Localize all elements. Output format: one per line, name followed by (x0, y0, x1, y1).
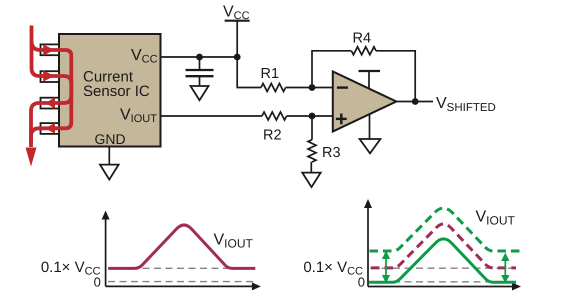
label R4 (353, 31, 372, 47)
wire node B down to R3 (311, 116, 313, 140)
capacitor C1 plates (186, 70, 214, 76)
VCC supply bar (225, 20, 250, 22)
wire VCC node down and to R1 (237, 57, 261, 88)
label 0.1xVCC left graph (41, 259, 101, 278)
label R3 (322, 145, 341, 161)
svg-text:VSHIFTED: VSHIFTED (436, 95, 496, 114)
resistor R2 (262, 112, 287, 120)
op-amp minus sign (337, 86, 348, 88)
wire op-amp output (396, 101, 433, 103)
svg-text:VCC: VCC (223, 3, 250, 22)
node B non-inverting input junction (309, 113, 316, 120)
ground symbol under capacitor (191, 86, 209, 100)
capacitor C1 top lead (199, 57, 201, 69)
wire VCC bar down to node (236, 21, 238, 57)
node A inverting input junction (309, 84, 316, 91)
resistor R4 (351, 47, 376, 55)
node at VCC junction (234, 54, 241, 61)
label VIOUT pin (120, 106, 157, 125)
current arrowhead out of pin4 (45, 123, 55, 134)
ground symbol under IC (100, 165, 119, 180)
wire VIOUT pin to R2 (161, 115, 263, 117)
left graph x-axis (106, 282, 261, 290)
right shift arrow double-headed (502, 254, 509, 282)
label 0 left graph (94, 274, 101, 289)
wire R3 to ground (310, 162, 312, 173)
feedback wire R4 left and down to node A (312, 51, 351, 88)
pin stub IP4 (41, 123, 60, 134)
resistor R1 (261, 84, 286, 92)
wire VCC pin to supply node (161, 56, 238, 58)
node at output (412, 98, 419, 105)
svg-text:R4: R4 (353, 31, 372, 47)
right graph green solid waveform at zero (369, 239, 516, 282)
svg-text:0: 0 (358, 274, 365, 289)
ground symbol under op-amp (360, 139, 381, 153)
pin stub IP2 (41, 71, 60, 82)
svg-text:0.1× VCC: 0.1× VCC (41, 259, 101, 278)
label 0.1xVCC right graph (303, 259, 363, 278)
right graph x-axis (368, 283, 521, 291)
current entry wire down into pin2 (31, 26, 71, 148)
label VCC pin (131, 47, 158, 66)
svg-text:R1: R1 (261, 66, 280, 82)
current sensor IC U1 body (59, 34, 161, 147)
svg-text:GND: GND (95, 131, 126, 147)
svg-text:VIOUT: VIOUT (214, 232, 254, 251)
capacitor C1 bottom lead (199, 76, 201, 86)
svg-text:R3: R3 (322, 145, 341, 161)
label 0 right graph (358, 274, 365, 289)
svg-text:R2: R2 (263, 128, 282, 144)
op-amp U1 (333, 72, 397, 132)
left graph dashed level zero (108, 281, 254, 283)
right graph crimson dashed waveform shifted (371, 224, 516, 268)
svg-text:VIOUT: VIOUT (476, 209, 516, 228)
label VSHIFTED (436, 95, 496, 114)
node at capacitor tap (196, 54, 203, 61)
current arrowhead into pin2 (43, 70, 54, 81)
feedback wire output up and left to R4 (376, 51, 415, 102)
label VIOUT left graph (214, 232, 254, 251)
label R1 (261, 66, 280, 82)
left graph y-axis (102, 211, 110, 287)
GND pin wire (108, 147, 110, 166)
resistor R3 (308, 140, 316, 162)
label Current Sensor IC (83, 69, 150, 100)
wire R2 to op-amp non-inverting input (287, 115, 333, 117)
right graph green dashed waveform shifted more (370, 208, 525, 251)
ground symbol under R3 (302, 173, 320, 188)
current arrowhead out of pin3 (45, 97, 55, 108)
right graph y-axis (364, 199, 372, 287)
current branch into pin1 and internal loop to pin4 (31, 41, 71, 144)
label R2 (263, 128, 282, 144)
label GND pin (95, 131, 126, 147)
pin stub IP1 (41, 44, 60, 55)
right graph dashed level zero (370, 281, 511, 283)
pin stub IP3 (41, 98, 60, 109)
left shift arrow double-headed (383, 252, 390, 282)
left graph VIOUT waveform (108, 225, 255, 268)
op-amp negative supply stub (369, 114, 371, 140)
op-amp positive supply stub (359, 71, 381, 89)
op-amp plus sign (336, 114, 347, 125)
svg-text:Sensor IC: Sensor IC (83, 83, 150, 100)
svg-text:0.1× VCC: 0.1× VCC (303, 259, 363, 278)
label VIOUT right graph (476, 209, 516, 228)
svg-text:0: 0 (94, 274, 101, 289)
current exit arrowhead down (26, 148, 37, 167)
wire R1 to op-amp inverting input (286, 87, 333, 89)
right graph dashed level 0.1Vcc (370, 267, 511, 269)
left graph dashed level 0.1Vcc (108, 267, 255, 269)
label VCC supply (223, 3, 250, 22)
current arrowhead into pin1 (43, 44, 54, 55)
